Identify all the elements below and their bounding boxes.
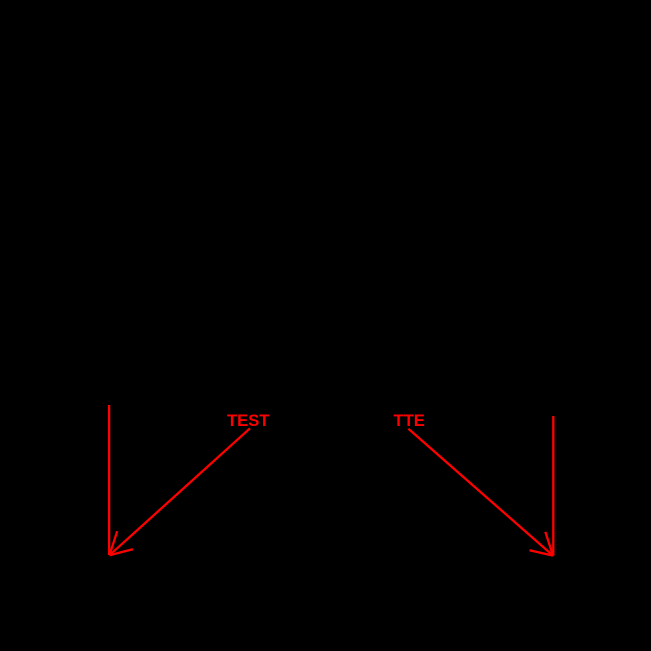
wire TEST arrow shaft — [110, 428, 251, 555]
arrowhead right barbs — [530, 532, 554, 556]
arrowhead left barbs — [110, 531, 133, 555]
svg-text:TTE: TTE — [394, 411, 425, 430]
wire TTE arrow shaft — [408, 429, 553, 556]
wire left vertical — [108, 405, 110, 555]
wire right vertical — [552, 416, 554, 556]
svg-text:TEST: TEST — [227, 411, 269, 430]
